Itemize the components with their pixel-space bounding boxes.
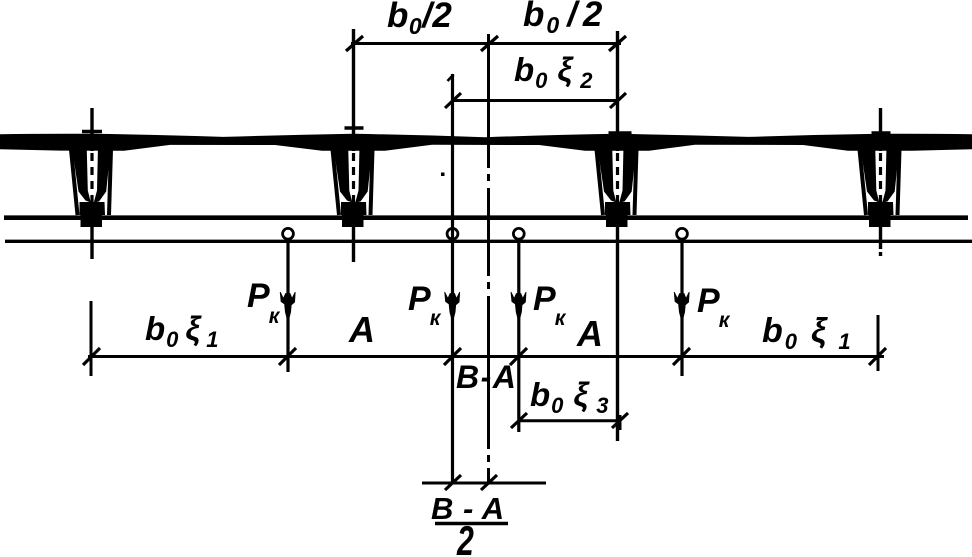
label b0 xi1 (left) [145,310,220,352]
svg-text:B-A: B-A [456,359,517,395]
label P_k 1 [247,277,281,328]
load line P_k 4 [674,240,689,376]
svg-text:A: A [348,309,375,350]
wheel contact circle 1 [283,228,294,239]
load line P_k 3 [511,240,526,432]
main dimension line (b0xi1 / A / B-A / A / b0xi1) [83,301,886,376]
svg-text:A: A [576,313,603,354]
svg-text:2: 2 [456,517,474,557]
dimension line b0*xi3 [511,413,628,430]
label b0/2 (right) [523,0,604,38]
label A (left) [348,309,375,350]
beam 1 (rib at x=92) [71,150,111,228]
load line P_k 2 [445,74,460,483]
axis centerline (dash-dot) [487,34,490,483]
label b0/2 (left) [387,0,452,39]
beam 4 centerline [872,108,891,256]
label b0 xi1 (right) [762,312,853,354]
wheel contact circle 2 [447,228,458,239]
dimension line b0/2 + b0/2 (top) [346,29,626,58]
load line P_k 1 [280,240,295,372]
label P_k 2 [408,280,442,330]
deck top band (slab/flange strip) [0,134,972,151]
beam 4 (rib at x=880.5) [860,150,900,228]
beam 3 centerline [609,31,632,441]
dimension line b0*xi2 [445,93,626,108]
dimension line (B-A)/2 (bottom) [422,356,546,490]
wheel contact circle 3 [513,228,524,239]
label b0 xi2 [514,51,594,93]
slab top line [4,215,968,220]
slab bottom line [5,240,972,243]
scan speck [441,173,445,177]
wheel contact circle 4 [677,228,688,239]
label A (right) [576,313,603,354]
label P_k 4 [697,282,731,332]
beam 2 (rib at x=353.5) [333,150,373,228]
label B-A [456,359,517,395]
beam 3 (rib at x=617.5) [597,150,637,228]
beam 2 centerline [345,29,364,262]
beam 1 centerline [82,108,102,259]
label P_k 3 [533,280,567,330]
label b0 xi3 [530,376,610,418]
label fraction (B-A)/2 [431,491,508,557]
